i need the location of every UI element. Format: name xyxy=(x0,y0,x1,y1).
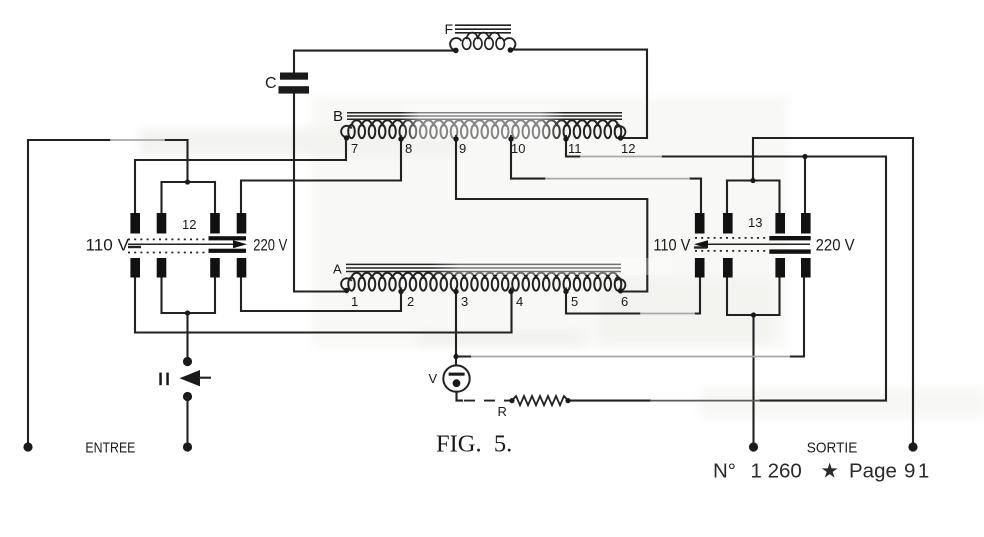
svg-text:1: 1 xyxy=(351,294,358,309)
svg-text:FIG. 5.: FIG. 5. xyxy=(436,431,512,458)
svg-text:12: 12 xyxy=(621,141,635,156)
svg-text:9: 9 xyxy=(459,141,466,156)
svg-text:ENTREE: ENTREE xyxy=(85,440,135,457)
svg-text:10: 10 xyxy=(511,141,525,156)
svg-text:A: A xyxy=(333,262,342,277)
svg-text:B: B xyxy=(333,108,343,125)
svg-text:12: 12 xyxy=(182,217,196,232)
svg-text:110 V: 110 V xyxy=(653,236,691,255)
svg-text:6: 6 xyxy=(621,294,628,309)
svg-text:2: 2 xyxy=(407,294,414,309)
svg-text:V: V xyxy=(429,371,438,386)
svg-text:220 V: 220 V xyxy=(816,236,856,255)
svg-text:C: C xyxy=(265,75,277,92)
svg-text:R: R xyxy=(498,404,507,419)
svg-text:4: 4 xyxy=(516,294,523,309)
svg-text:SORTIE: SORTIE xyxy=(807,439,858,456)
svg-text:8: 8 xyxy=(405,141,412,156)
svg-text:220 V: 220 V xyxy=(253,236,287,255)
svg-text:F: F xyxy=(445,21,454,37)
svg-text:7: 7 xyxy=(351,141,358,156)
svg-text:3: 3 xyxy=(461,294,468,309)
svg-text:5: 5 xyxy=(571,294,578,309)
svg-text:11: 11 xyxy=(568,141,582,156)
svg-text:110 V: 110 V xyxy=(86,236,130,255)
svg-text:13: 13 xyxy=(748,215,762,230)
